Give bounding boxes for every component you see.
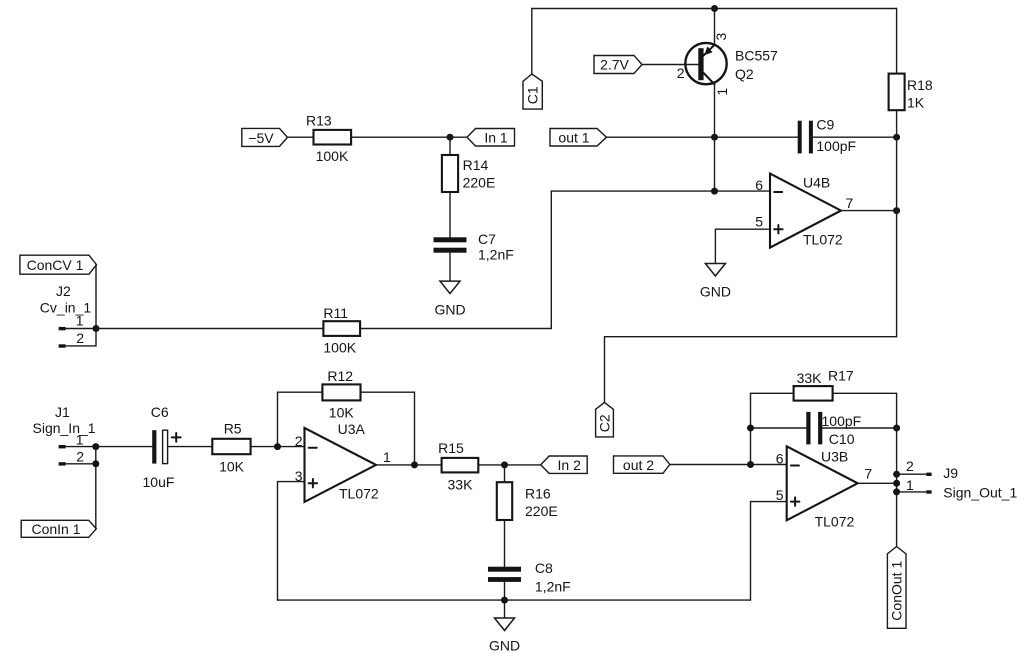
- wire C9 to right rail: [813, 136, 897, 138]
- net flag ConOut 1: [887, 547, 906, 629]
- svg-text:R17: R17: [828, 368, 854, 384]
- wire U3A pin 3 to bottom rail: [278, 482, 305, 600]
- svg-text:100pF: 100pF: [822, 413, 862, 429]
- wire feedback up to R12: [278, 392, 323, 446]
- svg-text:In 1: In 1: [484, 130, 508, 146]
- wire R14 to C7: [449, 192, 451, 237]
- junction R13/R14/In1: [447, 134, 454, 141]
- wire right rail down: [896, 137, 898, 337]
- label C9 value: [816, 138, 856, 154]
- svg-text:33K: 33K: [448, 477, 474, 493]
- label pin 5: [776, 487, 784, 503]
- wire R11 to corner up to pin6 row: [360, 191, 551, 328]
- label C10 value: [822, 413, 862, 429]
- junction J9 pin 2 node: [893, 471, 900, 478]
- label R18 reference: [907, 77, 933, 93]
- connector J2 pin 2: [59, 344, 96, 347]
- svg-text:Sign_In_1: Sign_In_1: [33, 420, 96, 436]
- label pin 2: [677, 65, 685, 81]
- svg-text:2: 2: [76, 330, 84, 346]
- svg-text:C9: C9: [816, 117, 834, 133]
- svg-text:7: 7: [864, 466, 872, 482]
- svg-text:Sign_Out_1: Sign_Out_1: [943, 484, 1017, 500]
- connector J1 pin 1: [59, 445, 96, 448]
- svg-text:R12: R12: [327, 368, 353, 384]
- svg-text:Q2: Q2: [735, 66, 754, 82]
- svg-text:out 1: out 1: [558, 130, 589, 146]
- op-amp U3A: [305, 428, 377, 502]
- label pin 6: [755, 177, 763, 193]
- op-amp U4B: [770, 174, 841, 248]
- label pin 7: [864, 466, 872, 482]
- net flag -5V: [242, 128, 288, 146]
- svg-text:1K: 1K: [907, 95, 925, 111]
- wire R17 to right rail: [833, 392, 897, 394]
- resistor R17: [794, 386, 833, 401]
- svg-text:1: 1: [76, 431, 84, 447]
- resistor R15: [442, 458, 479, 473]
- wire out1 row to C9: [607, 136, 798, 138]
- svg-text:1: 1: [714, 88, 730, 96]
- label C7 value: [478, 247, 514, 263]
- label R11 value: [323, 339, 356, 355]
- junction C10 right: [893, 425, 900, 432]
- wire node to R16: [504, 465, 506, 482]
- svg-text:R16: R16: [525, 485, 551, 501]
- svg-text:100K: 100K: [323, 339, 356, 355]
- svg-text:220E: 220E: [525, 503, 558, 519]
- junction C10 left: [747, 425, 754, 432]
- label pin 1: [714, 88, 730, 96]
- connector J9 pin 2: [897, 473, 932, 476]
- svg-text:3: 3: [713, 33, 729, 41]
- label J2 pin 2: [76, 330, 84, 346]
- wire C7 to ground: [449, 253, 451, 281]
- svg-text:2: 2: [295, 433, 303, 449]
- wire right rail R17 to ConOut: [896, 393, 898, 546]
- junction out1 at Q2 emitter: [711, 134, 718, 141]
- wire node to In 1: [450, 136, 467, 138]
- svg-text:ConCV 1: ConCV 1: [27, 257, 84, 273]
- resistor R11: [323, 321, 360, 336]
- node C1 flag: [523, 74, 542, 109]
- junction U3B output node: [893, 480, 900, 487]
- op-amp U3B: [787, 446, 858, 520]
- svg-text:J1: J1: [55, 404, 70, 420]
- net flag 2.7V: [594, 56, 642, 74]
- label R17 reference: [828, 368, 854, 384]
- svg-text:−5V: −5V: [248, 130, 274, 146]
- svg-text:Cv_in_1: Cv_in_1: [40, 300, 92, 316]
- label C6 reference: [151, 404, 169, 420]
- svg-text:2.7V: 2.7V: [600, 57, 629, 73]
- label R11 reference: [323, 305, 348, 321]
- wire R17 row: [751, 392, 794, 394]
- label pin 5: [755, 213, 763, 229]
- wire C8 to bottom rail: [504, 582, 506, 600]
- label R18 value: [907, 95, 925, 111]
- svg-text:10K: 10K: [219, 458, 245, 474]
- junction U3A pin 2 node: [274, 443, 281, 450]
- svg-text:220E: 220E: [463, 175, 496, 191]
- label R13 value: [316, 148, 349, 164]
- junction U3A output: [411, 461, 418, 468]
- capacitor C10: [806, 412, 822, 445]
- svg-text:33K: 33K: [797, 370, 823, 386]
- junction R15/R16: [501, 461, 508, 468]
- svg-text:U3A: U3A: [338, 421, 366, 437]
- label R15 value: [448, 477, 474, 493]
- svg-text:R14: R14: [463, 157, 489, 173]
- junction J1 pin 2: [92, 460, 99, 467]
- junction U3B pin 6 node: [747, 461, 754, 468]
- svg-text:J9: J9: [943, 465, 958, 481]
- wire top rail C1 net: [532, 8, 897, 10]
- label pin 2: [295, 433, 303, 449]
- ground C7: [434, 281, 465, 317]
- svg-text:2: 2: [76, 448, 84, 464]
- net flag ConIn 1: [21, 520, 96, 537]
- svg-text:1,2nF: 1,2nF: [478, 247, 514, 263]
- resistor R14: [442, 155, 458, 192]
- net flag ConCV 1: [20, 255, 97, 274]
- wire rail to ground: [504, 600, 506, 618]
- label J9 pin 1: [906, 477, 914, 493]
- svg-text:R15: R15: [438, 440, 464, 456]
- ground C8: [489, 618, 520, 653]
- label U3B reference: [821, 448, 848, 464]
- label R17 value: [797, 370, 823, 386]
- wire C10 row left: [751, 427, 807, 429]
- net flag In 1: [467, 129, 515, 147]
- wire U4B output: [841, 210, 897, 212]
- connector J9 pin 1: [897, 490, 932, 493]
- wire U4B pin 5: [715, 229, 770, 263]
- svg-text:TL072: TL072: [815, 513, 855, 529]
- svg-text:C1: C1: [524, 86, 540, 104]
- label pin 7: [846, 195, 854, 211]
- svg-text:ConIn 1: ConIn 1: [31, 521, 80, 537]
- svg-text:2: 2: [906, 458, 914, 474]
- svg-text:In 2: In 2: [558, 457, 582, 473]
- junction right rail at C9/R18: [893, 134, 900, 141]
- wire R16 to C8: [504, 520, 506, 567]
- label J1 pin 2: [76, 448, 84, 464]
- wire R5 to U3A pin 2: [251, 446, 305, 448]
- label C6 value: [143, 474, 175, 490]
- svg-text:C8: C8: [535, 560, 553, 576]
- connector J2 pin 1: [59, 327, 96, 330]
- junction top rail at Q2 collector: [711, 5, 718, 12]
- label J1 pin 1: [76, 431, 84, 447]
- svg-text:out 2: out 2: [623, 457, 654, 473]
- label U4B value TL072: [803, 232, 843, 248]
- junction J1 pin 1: [92, 443, 99, 450]
- label J9 pin 2: [906, 458, 914, 474]
- svg-text:2: 2: [677, 65, 685, 81]
- wire emitter node down to U4B pin 6: [714, 137, 716, 191]
- resistor R5: [212, 439, 250, 454]
- label U4B reference: [803, 175, 830, 191]
- svg-text:1: 1: [76, 312, 84, 328]
- label R12 value: [329, 405, 355, 421]
- resistor R16: [497, 482, 512, 520]
- label R5 value: [219, 458, 245, 474]
- capacitor C8: [488, 567, 521, 582]
- wire Q2 base: [642, 64, 698, 66]
- label C9 reference: [816, 117, 834, 133]
- label U3B value TL072: [815, 513, 855, 529]
- svg-text:6: 6: [776, 451, 784, 467]
- label J9 reference: [943, 465, 958, 481]
- label pin 3: [713, 33, 729, 41]
- wire -5V to R13: [288, 136, 314, 138]
- svg-text:1,2nF: 1,2nF: [535, 579, 571, 595]
- wire right top vertical to R18: [896, 9, 898, 74]
- svg-text:R5: R5: [224, 420, 242, 436]
- wire U3A output: [376, 464, 442, 466]
- wire C6 to R5: [168, 446, 213, 448]
- label R15 reference: [438, 440, 464, 456]
- capacitor C7: [434, 237, 467, 252]
- junction U4B output right rail: [893, 207, 900, 214]
- junction pin6 row at Q2 column: [711, 188, 718, 195]
- svg-text:1: 1: [906, 477, 914, 493]
- label J2 value: [40, 300, 92, 316]
- svg-text:J2: J2: [56, 283, 71, 299]
- wire Q2 collector pin 3: [714, 9, 716, 45]
- wire C10 row right: [822, 427, 896, 429]
- svg-text:6: 6: [755, 177, 763, 193]
- label U3A reference: [338, 421, 366, 437]
- label C10 reference: [829, 431, 855, 447]
- label Q2 value BC557: [735, 48, 778, 64]
- wire C1 drop: [531, 9, 533, 75]
- svg-text:100pF: 100pF: [816, 138, 856, 154]
- wire J2 to R11: [96, 328, 323, 330]
- svg-text:100K: 100K: [316, 148, 349, 164]
- svg-text:10K: 10K: [329, 405, 355, 421]
- net flag out 1: [550, 129, 607, 147]
- wire Q2 emitter down: [714, 84, 716, 137]
- wire U3B pin 5 from bottom rail: [751, 502, 787, 600]
- svg-text:10uF: 10uF: [143, 474, 175, 490]
- svg-text:BC557: BC557: [735, 48, 778, 64]
- capacitor C9: [798, 121, 813, 154]
- ground U4B: [700, 264, 731, 300]
- label R13 reference: [306, 112, 332, 128]
- label C8 reference: [535, 560, 553, 576]
- svg-text:C7: C7: [478, 231, 496, 247]
- label J1 reference: [55, 404, 70, 420]
- label J2 pin 1: [76, 312, 84, 328]
- wire ConCV drop through J2 pins: [95, 265, 97, 346]
- svg-text:7: 7: [846, 195, 854, 211]
- svg-text:GND: GND: [489, 638, 520, 653]
- label C8 value: [535, 579, 571, 595]
- svg-text:C6: C6: [151, 404, 169, 420]
- svg-text:C2: C2: [596, 414, 612, 432]
- wire left vertical to R17 row: [750, 393, 752, 464]
- svg-text:TL072: TL072: [339, 485, 379, 501]
- svg-text:R18: R18: [907, 77, 933, 93]
- junction J9 pin 1 node: [893, 488, 900, 495]
- junction bottom rail at C8: [501, 597, 508, 604]
- capacitor C6: [152, 430, 180, 463]
- wire out 2 to U3B pin 6: [670, 464, 787, 466]
- resistor R13: [314, 130, 352, 145]
- label J2 reference: [56, 283, 71, 299]
- net flag out 2: [614, 456, 670, 473]
- wire C2 run: [605, 337, 897, 403]
- svg-text:5: 5: [755, 213, 763, 229]
- label R14 reference: [463, 157, 489, 173]
- wire U4B pin 6 row: [551, 190, 770, 192]
- wire R15 to In 2: [478, 464, 540, 466]
- svg-text:C10: C10: [829, 431, 855, 447]
- svg-text:U4B: U4B: [803, 175, 830, 191]
- node C2 flag: [596, 402, 614, 437]
- svg-text:R13: R13: [306, 112, 332, 128]
- label R12 reference: [327, 368, 353, 384]
- connector J1 pin 2: [59, 462, 96, 465]
- label R16 value: [525, 503, 558, 519]
- net flag In 2: [541, 456, 588, 473]
- svg-text:TL072: TL072: [803, 232, 843, 248]
- label pin 3: [295, 468, 303, 484]
- resistor R12: [322, 384, 360, 400]
- junction J2 pin 1 node: [93, 325, 100, 332]
- label C7 reference: [478, 231, 496, 247]
- svg-text:5: 5: [776, 487, 784, 503]
- label R5 reference: [224, 420, 242, 436]
- label J9 value: [943, 484, 1017, 500]
- wire bottom rail: [278, 599, 751, 601]
- svg-text:1: 1: [383, 449, 391, 465]
- transistor Q2: [685, 43, 726, 84]
- svg-text:GND: GND: [434, 302, 465, 318]
- wire R12 to U3A output: [361, 392, 415, 465]
- label pin 6: [776, 451, 784, 467]
- label pin 1: [383, 449, 391, 465]
- wire ConIn drop through J1 pins: [95, 447, 97, 529]
- label Q2 reference: [735, 66, 754, 82]
- svg-text:GND: GND: [700, 284, 731, 300]
- wire node to R14: [449, 137, 451, 155]
- wire J1 to C6: [96, 446, 152, 448]
- label U3A value TL072: [339, 485, 379, 501]
- wire U3B output: [858, 482, 897, 484]
- svg-text:U3B: U3B: [821, 448, 848, 464]
- resistor R18: [889, 74, 905, 111]
- svg-text:R11: R11: [323, 305, 348, 321]
- wire R18 bottom: [896, 110, 898, 137]
- wire R13 to node: [351, 136, 450, 138]
- label R16 reference: [525, 485, 551, 501]
- label J1 value: [33, 420, 96, 436]
- svg-text:ConOut 1: ConOut 1: [888, 561, 904, 621]
- label R14 value: [463, 175, 496, 191]
